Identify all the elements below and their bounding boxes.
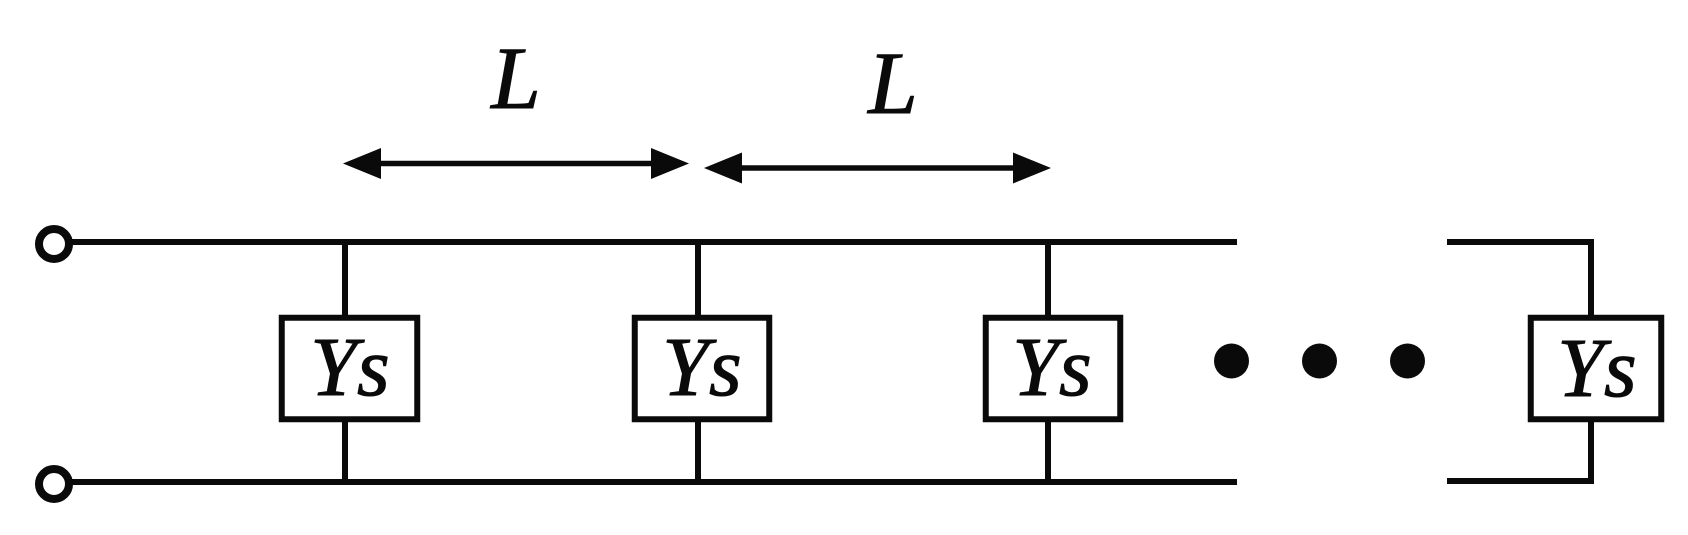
terminal circle (top-left input) [39, 229, 69, 259]
shunt admittance box Ys 3 [986, 318, 1121, 420]
continuation dot 3 [1390, 344, 1425, 379]
wire shunt 3 bottom [1045, 420, 1051, 482]
svg-text:L: L [489, 30, 541, 128]
terminal circle (bottom-left input) [39, 469, 69, 499]
wire shunt 3 top [1045, 242, 1051, 318]
shunt admittance box Ys 1 [282, 318, 418, 420]
wire top rail [71, 239, 1237, 245]
continuation dot 2 [1302, 344, 1337, 379]
shunt admittance box Ys 2 [635, 318, 770, 420]
wire bottom rail [71, 479, 1237, 485]
wire shunt 1 top [342, 242, 348, 318]
wire top rail right segment [1447, 242, 1591, 318]
dimension arrow L2 [704, 153, 1051, 184]
svg-text:Ys: Ys [310, 321, 389, 414]
wire shunt 2 top [695, 242, 701, 318]
dimension arrow L1 [343, 148, 689, 179]
wire shunt 1 bottom [342, 420, 348, 482]
continuation dot 1 [1214, 344, 1249, 379]
svg-text:Ys: Ys [1012, 321, 1091, 414]
wire bottom rail right segment [1447, 419, 1591, 481]
svg-text:L: L [866, 35, 918, 133]
svg-text:Ys: Ys [662, 321, 741, 414]
svg-text:Ys: Ys [1557, 322, 1636, 415]
wire shunt 2 bottom [695, 420, 701, 482]
shunt admittance box Ys 4 [1531, 318, 1662, 420]
